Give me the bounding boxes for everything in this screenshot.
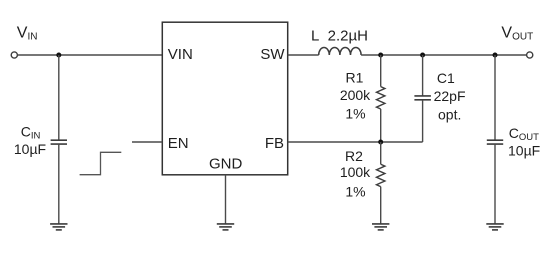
wire EN stub [132,141,162,143]
resistor R2 [377,164,385,186]
svg-text:opt.: opt. [438,106,461,122]
svg-text:R2: R2 [345,148,363,164]
wire CIN branch upper [58,55,60,140]
IC U1 [162,22,287,175]
svg-text:10µF: 10µF [14,141,46,157]
svg-text:R1: R1 [346,69,364,85]
wire R2 lower lead [380,187,382,224]
svg-text:22pF: 22pF [434,88,466,104]
node VIN terminal [11,52,17,58]
junction SW node R1 [378,53,383,58]
svg-text:SW: SW [260,46,285,63]
svg-text:200k: 200k [340,87,371,103]
wire CIN branch lower [58,144,60,224]
ground (IC) [217,224,234,230]
svg-text:C1: C1 [437,70,455,86]
wire R2 upper lead [380,142,382,164]
junction C1 top [420,53,425,58]
wire R1 upper lead [380,55,382,87]
resistor R1 [377,87,385,109]
wire output rail [361,54,526,56]
svg-text:EN: EN [168,135,189,152]
junction FB node [378,140,383,145]
svg-text:10µF: 10µF [508,142,540,158]
svg-text:L 2.2µH: L 2.2µH [311,27,368,44]
wire R1 lower lead [380,109,382,142]
ground (R2) [372,224,389,230]
svg-text:1%: 1% [345,184,365,200]
enable step waveform [80,152,122,174]
ground (CIN) [50,224,67,230]
wire COUT upper lead [494,55,496,140]
wire COUT lower lead [494,144,496,224]
wire input rail [18,54,163,56]
capacitor C1 [414,96,431,100]
wire SW to inductor [288,54,319,56]
svg-text:FB: FB [265,135,284,152]
wire C1 upper lead [422,55,424,96]
svg-text:1%: 1% [345,105,365,121]
node VOUT terminal [527,52,533,58]
wire GND pin [225,175,227,224]
wire C1 lower lead [422,100,424,142]
junction COUT top [493,53,498,58]
wire FB rail [288,141,423,143]
svg-text:GND: GND [209,156,243,173]
inductor L [319,47,361,55]
junction input node [56,53,61,58]
ground (COUT) [486,224,503,230]
svg-text:VIN: VIN [168,46,193,63]
svg-text:100k: 100k [340,164,371,180]
capacitor COUT [487,140,503,144]
capacitor CIN [51,140,67,144]
